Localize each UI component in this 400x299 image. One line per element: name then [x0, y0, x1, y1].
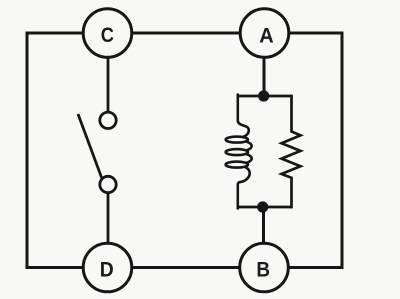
wire: C to switch top contact — [107, 58, 110, 112]
resistor R1 — [282, 95, 301, 209]
wire: bottom of parallel branch — [239, 206, 292, 209]
wire: top of parallel branch — [239, 95, 292, 98]
switch S1 top contact — [100, 112, 116, 128]
wire: A down to top junction — [263, 58, 266, 96]
wire: switch bottom contact to D — [107, 193, 110, 243]
terminal B — [240, 243, 289, 292]
terminal D — [83, 243, 132, 292]
svg-text:B: B — [256, 258, 270, 281]
inductor L1 — [226, 95, 252, 209]
switch S1 blade (open) — [78, 114, 102, 178]
terminal C — [83, 9, 132, 58]
svg-text:A: A — [259, 24, 273, 48]
node: top junction dot — [258, 90, 269, 101]
wire: outer rectangular loop — [27, 33, 342, 268]
node: bottom junction dot — [257, 201, 268, 212]
wire: bottom junction to B — [262, 207, 265, 243]
svg-text:C: C — [101, 24, 114, 48]
svg-text:D: D — [100, 257, 114, 281]
terminal A — [240, 9, 289, 58]
switch S1 bottom contact — [100, 176, 116, 192]
